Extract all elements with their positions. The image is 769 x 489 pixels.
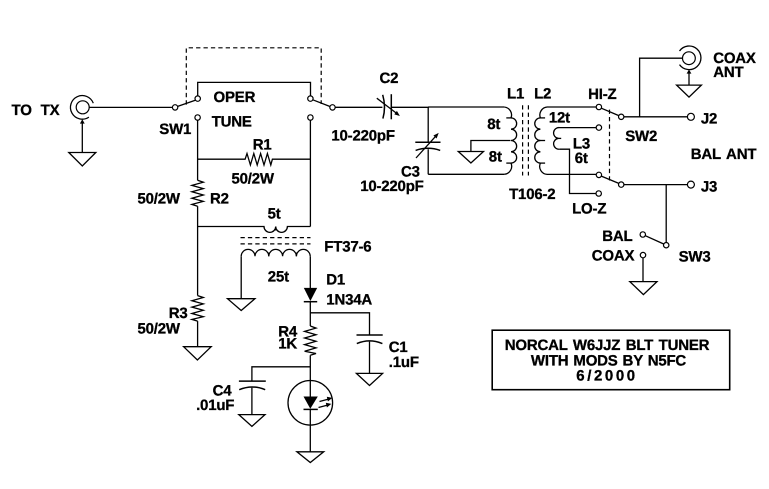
resistor R2 — [192, 180, 203, 206]
connector J1 TO TX — [70, 96, 93, 124]
svg-text:COAX: COAX — [592, 247, 635, 264]
wire C1 to ground — [369, 342, 371, 374]
svg-text:LO-Z: LO-Z — [572, 201, 606, 218]
switch SW2 pole B — [596, 172, 624, 196]
winding 25t — [241, 249, 310, 256]
ground at TO TX — [69, 153, 96, 166]
jack J3 — [687, 181, 694, 188]
svg-text:50/2W: 50/2W — [138, 320, 181, 337]
svg-text:HI-Z: HI-Z — [588, 86, 616, 103]
connector COAX ANT — [680, 46, 701, 74]
ground at L1 center tap — [458, 152, 483, 164]
wire LED to ground — [309, 425, 311, 452]
ground at 25t — [228, 299, 255, 311]
wire SW2A to J2 — [624, 116, 688, 118]
ground at COAX ANT — [677, 85, 702, 97]
wire L1 bottom to C3 — [428, 173, 504, 175]
wire TUNE left vertical lower — [197, 206, 199, 295]
ground at C4 — [239, 415, 265, 427]
wire COAX ANT to ground — [688, 72, 690, 86]
svg-text:OPER: OPER — [214, 89, 256, 106]
svg-text:TUNE: TUNE — [212, 114, 252, 131]
svg-text:12t: 12t — [549, 110, 570, 127]
inductor L3 6t — [554, 128, 597, 150]
switch SW2 pole A — [596, 104, 624, 130]
switch SW3 — [640, 232, 669, 258]
svg-text:R2: R2 — [210, 191, 229, 208]
inductor L1 8t+8t — [504, 107, 516, 174]
resistor R1 — [198, 154, 311, 166]
svg-text:ANT: ANT — [713, 64, 743, 81]
svg-text:50/2W: 50/2W — [232, 171, 275, 188]
wire L3 to LO-Z contact — [560, 149, 596, 193]
wire J1 to SW1 common — [89, 106, 172, 108]
wire SW2B to J3 — [624, 184, 688, 186]
wire J3 bus to SW3 — [665, 185, 667, 243]
LED DS1 — [288, 381, 333, 426]
svg-text:5t: 5t — [268, 205, 281, 222]
wire SW3 to ground — [642, 258, 644, 282]
capacitor C2 variable — [377, 94, 400, 119]
wire SW1 to C2 — [335, 106, 382, 108]
jack J2 — [687, 113, 694, 120]
svg-text:10-220pF: 10-220pF — [331, 127, 394, 144]
title box — [492, 330, 730, 390]
svg-text:TO TX: TO TX — [12, 102, 60, 119]
diode D1 1N34A — [304, 288, 317, 302]
svg-text:6/2000: 6/2000 — [576, 368, 637, 385]
svg-text:D1: D1 — [326, 272, 345, 289]
svg-text:J3: J3 — [701, 179, 717, 196]
svg-text:1N34A: 1N34A — [326, 292, 372, 309]
resistor R4 — [305, 326, 316, 355]
winding 5t — [198, 227, 311, 233]
svg-text:10-220pF: 10-220pF — [360, 178, 423, 195]
wire TUNE right vertical — [309, 120, 311, 226]
capacitor C1 — [357, 335, 383, 344]
svg-text:R1: R1 — [253, 136, 272, 153]
wire L1 center tap — [471, 141, 511, 152]
svg-text:NORCAL W6JJZ BLT TUNER: NORCAL W6JJZ BLT TUNER — [505, 337, 710, 354]
switch SW1 pole B — [308, 96, 336, 120]
capacitor C3 variable — [415, 133, 440, 158]
core FT37-6 dashed — [241, 238, 311, 244]
capacitor C4 — [239, 381, 266, 390]
svg-text:C2: C2 — [380, 70, 399, 87]
ground at R3 — [184, 347, 212, 360]
svg-text:SW3: SW3 — [679, 249, 711, 266]
svg-text:.01uF: .01uF — [196, 397, 234, 414]
gang link SW2 dashed — [609, 110, 611, 182]
svg-text:BAL ANT: BAL ANT — [691, 146, 757, 163]
switch SW1 pole A — [172, 96, 200, 120]
svg-text:25t: 25t — [268, 269, 289, 286]
svg-text:6t: 6t — [575, 150, 588, 167]
svg-text:8t: 8t — [489, 149, 502, 166]
svg-text:.1uF: .1uF — [389, 354, 419, 371]
wire 25t left to ground — [240, 256, 242, 298]
inductor L2 12t — [535, 107, 596, 174]
wire 25t right to D1 — [309, 256, 311, 288]
wire node C to C4 — [252, 367, 310, 381]
ground at SW3 — [630, 282, 657, 295]
wire R4 to LED — [309, 355, 311, 381]
svg-text:1K: 1K — [278, 336, 297, 353]
svg-text:FT37-6: FT37-6 — [324, 238, 371, 255]
wire D1 to R4 — [309, 302, 311, 326]
wire OPER bus — [198, 82, 311, 95]
svg-text:SW2: SW2 — [625, 128, 657, 145]
wire node A to L1 top — [428, 106, 504, 108]
wire C2 to node A — [391, 106, 429, 108]
wire node A down to C3 — [427, 107, 429, 142]
svg-text:BAL: BAL — [602, 228, 632, 245]
svg-text:L1: L1 — [507, 85, 524, 102]
svg-text:8t: 8t — [487, 116, 500, 133]
ground at C1 — [356, 373, 382, 385]
wire J2 bus to COAX ANT — [640, 58, 683, 117]
svg-text:L2: L2 — [534, 85, 551, 102]
resistor R3 — [192, 296, 203, 322]
gang link SW1 dashed box — [186, 48, 321, 105]
wire TUNE left vertical upper — [197, 120, 199, 180]
svg-text:50/2W: 50/2W — [138, 191, 181, 208]
wire J1 to ground — [81, 122, 83, 153]
wire C3 to bottom bus — [427, 149, 429, 174]
wire C4 to ground — [251, 388, 253, 415]
svg-text:J2: J2 — [701, 110, 717, 127]
core T106-2 dashed — [523, 105, 529, 175]
svg-text:SW1: SW1 — [159, 121, 191, 138]
wire node B to C1 — [310, 313, 369, 335]
ground at LED — [297, 452, 324, 463]
svg-text:T106-2: T106-2 — [509, 186, 555, 203]
wire R3 to ground — [197, 321, 199, 347]
